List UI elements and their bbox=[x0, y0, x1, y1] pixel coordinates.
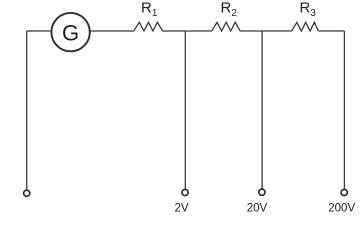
wire: R2 to R3 bbox=[240, 30, 292, 32]
wire: R3 to top-right corner bbox=[318, 30, 344, 32]
wire: right vertical drop to 200V terminal bbox=[343, 31, 345, 190]
wire: R1 to R2 bbox=[163, 30, 212, 32]
wire: left vertical drop bbox=[26, 31, 28, 190]
svg-text:200V: 200V bbox=[328, 202, 355, 214]
wire: top-left horizontal from corner to galvanometer bbox=[27, 30, 52, 32]
resistor R1 bbox=[134, 22, 163, 31]
svg-text:R2: R2 bbox=[221, 0, 238, 19]
resistor R3 bbox=[292, 22, 319, 31]
terminal: 20V bbox=[259, 189, 265, 195]
resistor R2 bbox=[212, 22, 240, 31]
terminal: common (bottom left) bbox=[24, 190, 30, 196]
svg-text:20V: 20V bbox=[247, 202, 268, 214]
svg-text:2V: 2V bbox=[174, 202, 188, 214]
wire: galvanometer to R1 bbox=[90, 30, 134, 32]
svg-text:G: G bbox=[62, 20, 79, 45]
wire: vertical drop to 2V terminal bbox=[184, 31, 186, 190]
terminal: 2V bbox=[182, 189, 188, 195]
galvanometer G bbox=[51, 13, 89, 51]
wire: vertical drop to 20V terminal bbox=[261, 31, 263, 189]
terminal: 200V bbox=[341, 189, 347, 195]
svg-text:R3: R3 bbox=[300, 0, 317, 19]
svg-text:R1: R1 bbox=[141, 0, 158, 19]
